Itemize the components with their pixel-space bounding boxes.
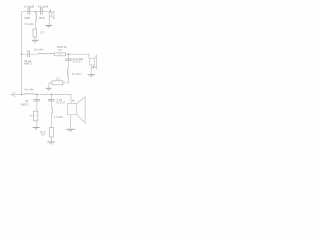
svg-text:2.0: 2.0 [40, 30, 44, 34]
svg-text:10: 10 [29, 114, 33, 118]
svg-text:1.0: 1.0 [56, 76, 60, 80]
svg-text:3,4: 3,4 [41, 133, 45, 137]
svg-text:К73-17: К73-17 [73, 60, 82, 64]
svg-text:5.0: 5.0 [58, 48, 62, 52]
svg-text:3,7 мГн: 3,7 мГн [54, 115, 64, 119]
svg-text:3.2 мГн: 3.2 мГн [72, 72, 82, 76]
svg-text:МБГО: МБГО [21, 102, 30, 106]
svg-text:ВКР: ВКР [39, 16, 44, 20]
svg-text:0.6 мГн: 0.6 мГн [34, 48, 44, 52]
svg-text:К73-17: К73-17 [57, 100, 66, 104]
svg-text:3.3 мкФ: 3.3 мкФ [24, 4, 35, 8]
svg-text:8.0 мкФ: 8.0 мкФ [38, 5, 49, 9]
svg-text:4,5 мГн: 4,5 мГн [24, 87, 34, 91]
svg-text:0.4 мГн: 0.4 мГн [25, 22, 35, 26]
svg-text:МКР: МКР [24, 16, 30, 20]
svg-text:МБГО: МБГО [24, 61, 33, 65]
